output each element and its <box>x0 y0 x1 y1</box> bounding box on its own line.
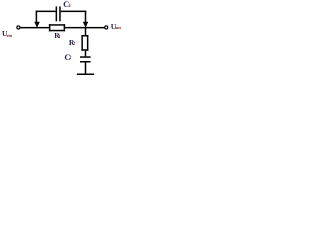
label C2 letter <box>64 53 70 62</box>
label R1 subscript <box>58 35 61 40</box>
label R2 subscript <box>73 42 76 47</box>
resistor R2 box bottom edge <box>81 49 88 51</box>
resistor R2 box left edge <box>81 35 83 51</box>
label U_aus letter <box>111 23 116 31</box>
junction arrow right <box>83 22 88 28</box>
capacitor C1 right plate <box>59 6 61 21</box>
wire riser junction to R2 <box>85 28 87 35</box>
wire top branch right segment <box>61 11 87 13</box>
wire main left: input terminal to R1 <box>20 27 50 29</box>
resistor R1 box right edge <box>64 24 66 31</box>
label C1 subscript <box>69 4 72 9</box>
label C2 subscript <box>69 56 72 61</box>
ground bar <box>77 74 94 76</box>
node output terminal <box>105 26 108 29</box>
resistor R1 box left edge <box>49 24 51 31</box>
capacitor C1 left plate <box>56 6 58 21</box>
resistor R2 box top edge <box>81 35 88 37</box>
junction arrow left <box>34 22 39 28</box>
capacitor C2 bottom plate <box>80 61 91 63</box>
node input terminal <box>17 26 20 29</box>
label R2 letter <box>69 39 74 47</box>
resistor R2 box right edge <box>87 35 89 51</box>
label U_aus subscript <box>115 26 122 31</box>
resistor R1 box top edge <box>49 24 65 26</box>
label U_ein letter <box>2 30 7 38</box>
wire C2 to ground bar <box>85 62 87 73</box>
wire left riser <box>36 11 38 23</box>
wire right riser <box>85 11 87 23</box>
wire R2 to C2 <box>85 51 87 57</box>
label C1 letter <box>63 0 69 9</box>
resistor R1 box bottom edge <box>49 30 65 32</box>
label U_ein subscript <box>7 34 13 38</box>
label R1 letter <box>54 32 59 40</box>
wire main right: R1 to output terminal <box>65 27 105 29</box>
wire top branch left segment <box>36 11 56 13</box>
capacitor C2 top plate <box>80 56 91 58</box>
